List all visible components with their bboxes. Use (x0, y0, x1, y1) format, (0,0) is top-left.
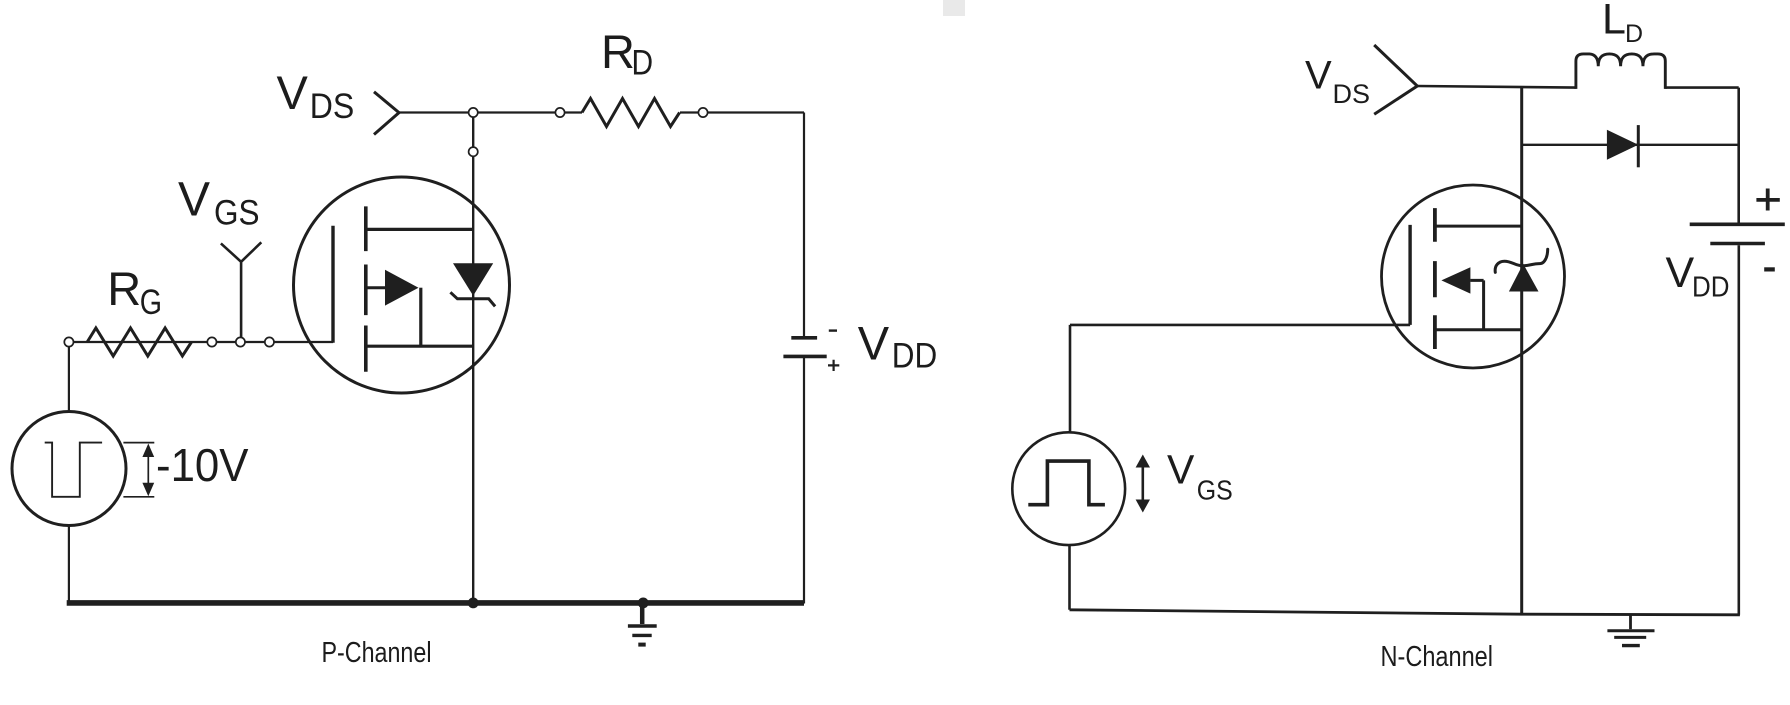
svg-text:G: G (140, 282, 162, 322)
node RG left corner (64, 337, 73, 346)
transistor Q1 drain finger (366, 228, 473, 231)
ground symbol right (1607, 615, 1654, 646)
svg-text:DS: DS (310, 86, 355, 126)
wire battery top lead (803, 113, 805, 337)
transistor Q1 channel dashes (364, 206, 368, 371)
resistor RD (582, 99, 680, 127)
battery VDD plates (783, 338, 826, 357)
battery plus sign right (1756, 189, 1779, 211)
transistor Q2 body arrow (1441, 267, 1483, 330)
label VGS left (178, 174, 260, 233)
battery plus sign (828, 360, 839, 371)
label -10V (156, 439, 249, 491)
svg-text:V: V (1305, 53, 1332, 97)
transistor Q2 source finger (1435, 328, 1522, 331)
label VDS left (277, 66, 355, 126)
node RG right (207, 337, 216, 346)
label VDS right (1305, 53, 1370, 109)
svg-text:P-Channel: P-Channel (322, 637, 432, 669)
node gate (265, 337, 274, 346)
svg-text:DD: DD (892, 336, 938, 375)
ground symbol left (628, 603, 657, 645)
probe arrow VDS (374, 92, 399, 135)
node VDS junction (469, 108, 478, 117)
label VDD left (858, 316, 938, 375)
label N-Channel (1381, 641, 1494, 673)
transistor Q2 drain finger (1435, 225, 1522, 228)
label VDD right (1666, 249, 1730, 304)
wire gate horizontal right (1070, 324, 1410, 327)
transistor Q2 channel dashes (1433, 208, 1437, 349)
wire gate horizontal (73, 341, 333, 343)
node RD left (555, 108, 564, 117)
wire drain vertical right (1520, 86, 1523, 614)
wire pulse source top lead (68, 346, 70, 412)
inductor LD (1576, 54, 1665, 89)
wire freewheel diode branch (1522, 144, 1739, 146)
wire right vertical to battery (1737, 88, 1740, 223)
wire pulse source bottom lead right (1068, 545, 1071, 610)
svg-text:V: V (178, 174, 210, 227)
dimension arrow -10V (142, 444, 154, 497)
label VGS right (1167, 447, 1233, 506)
svg-text:D: D (632, 44, 654, 83)
probe arrow VGS (221, 242, 261, 342)
svg-text:V: V (1666, 249, 1695, 297)
battery minus sign right (1764, 267, 1775, 271)
LEFT_CIRCUIT_START (12, 92, 839, 645)
source V2 pulse waveform right (1028, 461, 1105, 505)
transistor Q1 gate bar (331, 226, 334, 343)
junction dot ground-rail (638, 598, 649, 609)
label RG (107, 262, 162, 322)
wire inductor to corner (1665, 86, 1738, 89)
wire top rail P-channel drain node to battery (399, 111, 804, 113)
wire pulse source bottom lead (68, 525, 70, 601)
scanned gray artifact block (943, 0, 965, 16)
svg-text:V: V (277, 66, 309, 119)
transistor Q2 circle N-channel MOSFET (1382, 185, 1565, 368)
svg-text:DD: DD (1692, 271, 1730, 303)
node drain stub (469, 147, 478, 156)
svg-text:L: L (1602, 0, 1626, 43)
wire bottom rail right (1070, 610, 1740, 615)
dimension ticks -10V (123, 443, 154, 497)
svg-text:R: R (107, 262, 141, 315)
label RD (601, 25, 653, 83)
dimension arrow VGS right (1136, 455, 1150, 513)
label LD (1602, 0, 1643, 48)
svg-text:V: V (858, 316, 890, 369)
svg-text:GS: GS (214, 192, 260, 232)
svg-text:GS: GS (1197, 475, 1233, 506)
battery minus sign (829, 329, 837, 331)
junction dot drain-rail (468, 598, 479, 609)
wire bottom ground rail (67, 600, 804, 606)
probe arrow VDS right (1374, 45, 1417, 114)
svg-text:V: V (1167, 447, 1195, 493)
node VGS probe (236, 337, 245, 346)
transistor Q2 gate bar (1408, 225, 1411, 325)
source V2 pulse generator circle right (1012, 432, 1125, 545)
wire top drain to inductor (1417, 86, 1576, 88)
svg-text:-10V: -10V (156, 439, 249, 491)
svg-text:DS: DS (1333, 79, 1371, 109)
diode D1 body zener of Q1 (450, 263, 495, 306)
source V1 pulse generator circle (12, 412, 126, 526)
svg-text:D: D (1625, 20, 1643, 48)
svg-text:R: R (601, 25, 635, 78)
wire drain vertical (472, 113, 474, 604)
node RD right (698, 108, 707, 117)
resistor RG (87, 328, 191, 356)
diode D3 body zener of Q2 (1495, 249, 1548, 291)
battery VDD right plates (1690, 224, 1785, 243)
label P-Channel (322, 637, 432, 669)
transistor Q1 source finger (366, 345, 473, 348)
transistor Q1 circle P-channel MOSFET (294, 177, 510, 393)
wire battery to bottom rail (1738, 245, 1741, 615)
wire battery bottom lead (803, 358, 805, 604)
wire pulse source top lead right (1069, 325, 1072, 432)
transistor Q1 body arrow (367, 270, 421, 346)
svg-text:N-Channel: N-Channel (1381, 641, 1494, 673)
source V1 pulse waveform (45, 443, 102, 497)
diode D2 freewheeling (1607, 125, 1638, 167)
